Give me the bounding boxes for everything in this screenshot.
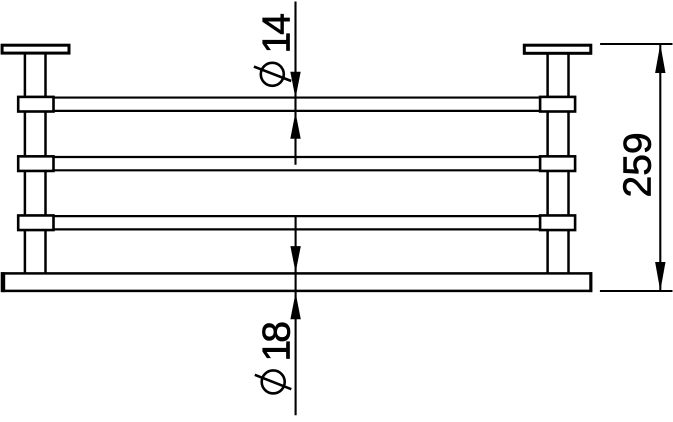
bottom bar left thick edge: [1, 272, 5, 292]
left sleeve 2: [18, 156, 53, 171]
svg-text:259: 259: [616, 132, 659, 197]
right post: [548, 54, 569, 274]
dia14 diameter symbol slash: [254, 67, 291, 81]
bottom bar right thick edge: [589, 272, 592, 292]
svg-text:1: 1: [255, 340, 298, 362]
dia18 down arrow: [290, 246, 300, 272]
259 dimension line: [659, 44, 661, 291]
259 up arrow: [655, 44, 665, 73]
right sleeve 1: [540, 97, 575, 112]
dia14 up arrow: [290, 112, 300, 138]
right sleeve 2: [540, 156, 575, 171]
dia18 dimension line: [295, 217, 297, 416]
dia18 diameter symbol circle: [262, 370, 285, 393]
dia14 diameter symbol circle: [261, 63, 284, 86]
259 top extension line: [600, 43, 672, 45]
bottom bar: [2, 273, 591, 291]
top rail bar: [52, 98, 542, 111]
dia18 diameter symbol slash: [255, 375, 291, 389]
middle rail bar: [52, 157, 542, 170]
bottom rail bar: [52, 216, 542, 229]
svg-text:1: 1: [255, 32, 298, 54]
259 down arrow: [655, 262, 665, 291]
dia18 digit-1 foot serif: [286, 344, 289, 358]
svg-text:8: 8: [255, 321, 298, 343]
left cap: [2, 45, 69, 53]
dia18 up arrow: [290, 293, 300, 319]
right cap: [524, 45, 591, 53]
left sleeve 1: [18, 97, 53, 112]
dia14 digit-1 foot serif: [286, 36, 289, 50]
259 bottom extension line: [600, 290, 673, 292]
right sleeve 3: [540, 215, 575, 230]
left sleeve 3: [18, 215, 53, 230]
dia14 down arrow: [290, 72, 300, 98]
left post: [25, 54, 46, 274]
svg-text:4: 4: [255, 13, 298, 35]
dia14 dimension line: [294, 2, 296, 165]
